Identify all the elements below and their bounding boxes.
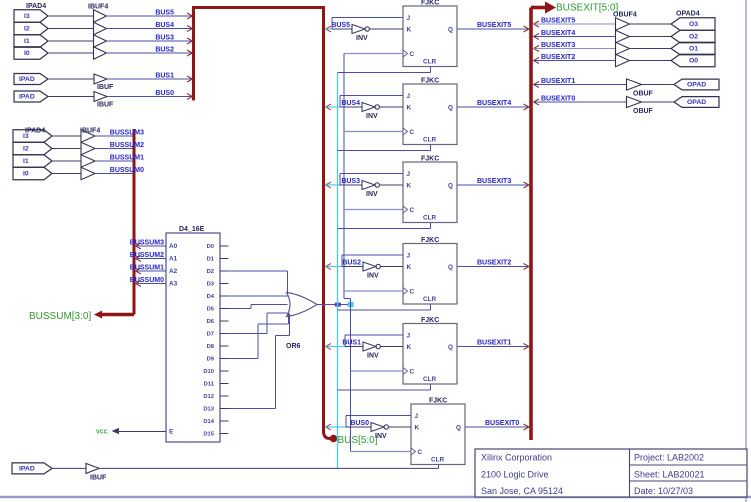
svg-text:BUSEXIT3: BUSEXIT3 — [477, 178, 511, 185]
wire BUS4 to J pin — [340, 96, 403, 108]
flip-flop U3 FJKC — [403, 0, 457, 67]
svg-text:BUSEXIT0: BUSEXIT0 — [541, 96, 575, 103]
wire BUS2 to INV input — [342, 260, 363, 267]
wire net BUSSUM2 from IBUF4 to bus — [95, 142, 144, 149]
wire BUSEXIT4 bus to OBUF4 — [534, 30, 616, 37]
svg-text:IBUF: IBUF — [97, 84, 114, 91]
input pad IPAD (clock) — [12, 463, 52, 474]
svg-text:VCC: VCC — [96, 430, 108, 436]
buffer OBUF (BUSEXIT0) — [627, 96, 654, 115]
wire decoder D4 to OR6 — [228, 295, 288, 297]
svg-text:IPAD4: IPAD4 — [25, 128, 45, 135]
flip-flop U6 FJKC — [403, 237, 457, 304]
svg-text:K: K — [407, 27, 412, 34]
bus tap BUS4 — [326, 104, 331, 110]
svg-text:INV: INV — [375, 433, 387, 440]
svg-text:OR6: OR6 — [286, 343, 301, 350]
wire CLR pin FF3 — [338, 223, 431, 229]
svg-text:INV: INV — [367, 273, 379, 280]
svg-text:FJKC: FJKC — [421, 237, 439, 244]
svg-text:BUS0: BUS0 — [155, 90, 174, 97]
svg-text:CLR: CLR — [431, 457, 445, 464]
or-gate OR6 — [286, 293, 317, 351]
svg-text:Q: Q — [448, 183, 453, 190]
wire clock to C pin FF2 — [344, 131, 403, 133]
bus tap BUS0 — [187, 94, 193, 100]
bus tap BUS0 — [326, 424, 331, 430]
wire BUSSUM3 bus to decoder A0 — [130, 240, 166, 247]
wire BUS4 to INV input — [340, 100, 362, 107]
wire net BUSEXIT0 to bus — [465, 420, 529, 427]
wire net BUSSUM0 from IBUF4 to bus — [95, 167, 144, 174]
input pad IPAD (BUS0) — [14, 91, 48, 102]
wire BUSEXIT1 bus to OBUF — [534, 78, 627, 85]
svg-text:BUSSUM2: BUSSUM2 — [110, 142, 144, 149]
svg-text:D14: D14 — [203, 419, 214, 425]
wire decoder D5 to OR6 — [228, 305, 288, 309]
flip-flop U8 FJKC — [411, 398, 465, 465]
wire BUS1 to INV input — [342, 340, 363, 347]
svg-text:Q: Q — [448, 105, 453, 112]
bus BUS[5:0] left vertical segment — [192, 8, 195, 101]
wire INV output to K pin — [380, 266, 403, 268]
svg-text:INV: INV — [356, 35, 368, 42]
svg-text:BUS4: BUS4 — [341, 100, 360, 107]
bus tap BUSEXIT2 into BUSEXIT bus — [524, 264, 530, 270]
wire IPAD4 pad 3 to IBUF4 — [48, 15, 94, 17]
svg-text:BUSEXIT[5:0]: BUSEXIT[5:0] — [556, 3, 618, 14]
svg-text:D7: D7 — [207, 332, 214, 338]
buffer IBUF4 — [88, 4, 108, 60]
wire IPAD to IBUF (BUS1) — [48, 78, 94, 80]
wire clock to C pin FF6 — [351, 451, 412, 453]
svg-text:D8: D8 — [207, 344, 215, 350]
svg-text:CLR: CLR — [423, 59, 437, 66]
svg-text:FJKC: FJKC — [421, 156, 439, 163]
svg-text:CLR: CLR — [423, 137, 437, 144]
svg-text:D0: D0 — [207, 244, 214, 250]
wire BUS3 to J pin — [340, 174, 403, 186]
svg-text:BUSEXIT2: BUSEXIT2 — [541, 54, 575, 61]
junction OR6 output at CLR line — [335, 303, 341, 307]
svg-text:I1: I1 — [24, 38, 30, 45]
bus tap BUS3 — [326, 182, 331, 188]
svg-text:K: K — [407, 264, 412, 271]
wire BUS3 tap segment — [326, 184, 340, 186]
inverter INV (BUS3) — [362, 181, 379, 199]
svg-text:C: C — [418, 449, 423, 456]
bus BUSEXIT[5:0] vertical segment — [529, 8, 533, 441]
net label BUSSUM[3:0] — [29, 311, 91, 322]
wire OBUF4 to OPAD4 pad 3 — [628, 23, 671, 25]
svg-text:A2: A2 — [169, 268, 178, 275]
title block — [475, 449, 747, 497]
wire BUS4 tap segment — [326, 106, 340, 108]
wire BUSEXIT5 bus to OBUF4 — [534, 18, 616, 25]
wire net BUS4 from IBUF4 to bus — [106, 22, 193, 29]
svg-text:OPAD: OPAD — [687, 99, 706, 106]
svg-text:Q: Q — [448, 27, 453, 34]
bus tap BUSSUM2 to decoder — [136, 256, 142, 262]
net label VCC — [96, 430, 108, 436]
inverter INV (BUS5) — [352, 25, 369, 43]
bus tap BUSEXIT5 to OBUF4 — [534, 21, 540, 27]
buffer IBUF (BUS1) — [94, 74, 114, 91]
wire net BUSSUM1 from IBUF4 to bus — [95, 155, 144, 162]
svg-text:J: J — [407, 15, 411, 22]
wire OBUF4 to OPAD4 pad 2 — [628, 36, 671, 38]
wire IPAD4 pad 1 to IBUF4 — [48, 40, 94, 42]
svg-text:BUSEXIT0: BUSEXIT0 — [485, 420, 519, 427]
svg-text:Q: Q — [456, 425, 461, 432]
svg-text:IPAD4: IPAD4 — [26, 3, 46, 10]
svg-text:I0: I0 — [24, 50, 30, 57]
inverter INV (BUS2) — [363, 262, 380, 280]
bus tap BUSSUM3 to decoder — [136, 243, 142, 249]
svg-text:I3: I3 — [24, 13, 30, 20]
svg-text:O0: O0 — [689, 58, 698, 65]
svg-text:D5: D5 — [207, 307, 215, 313]
wire BUS2 tap segment — [326, 266, 342, 268]
wire decoder D9 to OR6 — [228, 311, 289, 359]
bus tap BUSEXIT3 into BUSEXIT bus — [524, 182, 530, 188]
wire BUS0 to INV input — [346, 420, 371, 427]
wire decoder E input — [118, 431, 166, 433]
net label BUSEXIT[5:0] — [556, 3, 618, 14]
wire net BUSSUM3 from IBUF4 to bus — [95, 130, 144, 137]
wire BUSSUM1 bus to decoder A2 — [130, 265, 166, 272]
svg-text:BUSSUM0: BUSSUM0 — [110, 167, 144, 174]
buffer OBUF4 — [613, 12, 637, 67]
buffer OBUF (BUSEXIT1) — [627, 79, 654, 98]
wire BUS3 to INV input — [340, 178, 362, 185]
svg-text:BUS2: BUS2 — [155, 47, 174, 54]
svg-text:C: C — [410, 207, 415, 214]
svg-text:Sheet: LAB20021: Sheet: LAB20021 — [634, 470, 705, 480]
wire OBUF to OPAD (BUSEXIT1) — [642, 84, 675, 86]
svg-text:OBUF: OBUF — [633, 108, 654, 115]
svg-text:E: E — [169, 429, 174, 436]
bus tap BUSEXIT0 to OBUF — [534, 99, 540, 105]
wire net BUSEXIT4 to bus — [457, 100, 529, 107]
bus BUS[5:0] end hook and dot — [324, 431, 338, 442]
svg-text:Project: LAB2002: Project: LAB2002 — [634, 453, 704, 463]
wire net BUS3 from IBUF4 to bus — [106, 35, 193, 42]
svg-text:D10: D10 — [203, 369, 214, 375]
bus BUSEXIT[5:0] arrowhead — [545, 2, 556, 14]
wire CLR pin FF4 — [338, 304, 431, 310]
wire CLR pin FF1 — [338, 67, 431, 73]
svg-text:INV: INV — [366, 113, 378, 120]
bus BUSSUM[3:0] vertical segment — [133, 129, 136, 315]
wire decoder D2 to OR6 — [228, 271, 288, 296]
svg-text:Q: Q — [448, 264, 453, 271]
wire BUSSUM0 bus to decoder A3 — [130, 277, 166, 284]
wire BUS5 to J pin — [332, 18, 403, 30]
wire IPAD4 pad to IBUF4 (BUSSUM1) — [52, 160, 81, 162]
wire BUS1 tap segment — [326, 346, 345, 348]
svg-text:J: J — [407, 171, 411, 178]
svg-text:BUSEXIT1: BUSEXIT1 — [477, 340, 511, 347]
svg-text:BUSSUM0: BUSSUM0 — [130, 277, 164, 284]
svg-text:San Jose, CA 95124: San Jose, CA 95124 — [481, 486, 563, 496]
wire OBUF4 to OPAD4 pad 0 — [628, 60, 671, 62]
bus tap BUSSUM1 to decoder — [136, 268, 142, 274]
wire clock net jog — [344, 298, 351, 300]
svg-text:BUSSUM1: BUSSUM1 — [110, 155, 144, 162]
svg-text:D3: D3 — [207, 282, 215, 288]
svg-text:BUS[5:0]: BUS[5:0] — [338, 435, 378, 446]
svg-text:OBUF4: OBUF4 — [613, 12, 637, 19]
svg-text:IPAD: IPAD — [19, 94, 35, 101]
bus tap BUSEXIT4 into BUSEXIT bus — [524, 104, 530, 110]
inverter INV (BUS1) — [363, 342, 380, 360]
wire INV output to K pin — [379, 184, 403, 186]
wire clock net vertical upper — [343, 54, 345, 299]
svg-text:FJKC: FJKC — [429, 398, 447, 405]
svg-text:BUS3: BUS3 — [155, 35, 174, 42]
junction OR6 output at clock line — [348, 302, 354, 307]
svg-text:I2: I2 — [24, 26, 30, 33]
net label BUS[5:0] — [338, 435, 378, 446]
wire BUSEXIT3 bus to OBUF4 — [534, 42, 616, 49]
svg-text:IBUF4: IBUF4 — [88, 4, 108, 11]
svg-text:A0: A0 — [169, 243, 178, 250]
svg-text:A3: A3 — [169, 281, 178, 288]
wire OR6 output to clock line — [317, 304, 351, 306]
wire BUS2 to J pin — [342, 255, 403, 267]
svg-text:Xilinx Corporation: Xilinx Corporation — [481, 453, 552, 463]
svg-text:BUSEXIT2: BUSEXIT2 — [477, 260, 511, 267]
bus tap BUS4 — [187, 26, 193, 32]
svg-text:BUSSUM1: BUSSUM1 — [130, 265, 164, 272]
wire net BUS5 from IBUF4 to bus — [106, 10, 193, 17]
decoder output stubs D0-D15 — [220, 246, 229, 434]
wire clock to C pin FF5 — [351, 370, 404, 372]
wire net BUSEXIT5 to bus — [457, 22, 529, 29]
wire IPAD4 pad to IBUF4 (BUSSUM3) — [52, 135, 81, 137]
svg-text:BUSEXIT4: BUSEXIT4 — [477, 100, 511, 107]
wire BUS5 tap segment — [326, 28, 332, 30]
svg-text:D9: D9 — [207, 357, 215, 363]
input pad IPAD (BUS1) — [14, 74, 48, 85]
wire CLR pin FF6 — [438, 465, 440, 469]
svg-text:FJKC: FJKC — [421, 0, 439, 7]
svg-text:C: C — [410, 51, 415, 58]
wire CLR pin FF2 — [338, 145, 431, 151]
flip-flop U5 FJKC — [403, 156, 457, 223]
svg-text:D2: D2 — [207, 269, 214, 275]
svg-text:IBUF: IBUF — [97, 102, 114, 109]
buffer IBUF (clock) — [86, 463, 107, 481]
bus tap BUSEXIT3 to OBUF4 — [534, 46, 540, 52]
svg-text:C: C — [410, 289, 415, 296]
bus tap BUS3 — [187, 38, 193, 44]
svg-text:D11: D11 — [204, 382, 215, 388]
wire net BUSEXIT3 to bus — [457, 178, 529, 185]
svg-text:BUSEXIT3: BUSEXIT3 — [541, 42, 575, 49]
bus tap BUS1 — [326, 344, 331, 350]
wire IPAD to IBUF (clock) — [52, 467, 86, 469]
svg-text:IBUF4: IBUF4 — [80, 128, 100, 135]
svg-text:J: J — [415, 413, 419, 420]
svg-text:IPAD: IPAD — [19, 76, 35, 83]
input pad IPAD4 (BUSSUM group) — [13, 128, 52, 180]
bus tap BUS1 — [187, 76, 193, 82]
wire clock to C pin FF1 — [344, 53, 403, 55]
wire IPAD4 pad 0 to IBUF4 — [48, 52, 94, 54]
wire INV output to K pin — [380, 346, 403, 348]
svg-text:K: K — [407, 344, 412, 351]
wire net BUS0 from IBUF to bus — [107, 90, 193, 97]
svg-text:K: K — [407, 183, 412, 190]
wire CLR net vertical — [337, 73, 339, 469]
wire IPAD to IBUF (BUS0) — [48, 96, 94, 98]
svg-text:J: J — [407, 333, 411, 340]
wire BUSEXIT0 bus to OBUF — [534, 96, 627, 103]
svg-text:INV: INV — [367, 353, 379, 360]
svg-text:K: K — [407, 105, 412, 112]
svg-text:INV: INV — [366, 191, 378, 198]
wire BUS0 tap segment — [326, 426, 346, 428]
wire BUSEXIT2 bus to OBUF4 — [534, 54, 616, 61]
wire OBUF4 to OPAD4 pad 1 — [628, 48, 671, 50]
wire CLR pin FF5 — [338, 384, 431, 390]
wire BUS5 to INV input — [331, 22, 352, 29]
svg-text:J: J — [407, 93, 411, 100]
flip-flop U4 FJKC — [403, 78, 457, 145]
wire clock net vertical lower — [350, 299, 352, 452]
wire BUSSUM2 bus to decoder A1 — [130, 252, 166, 259]
wire net BUSEXIT2 to bus — [457, 260, 529, 267]
buffer IBUF4 (BUSSUM group) — [80, 128, 100, 180]
bus BUSEXIT[5:0] top horizontal segment — [531, 6, 546, 10]
bus tap BUSEXIT5 into BUSEXIT bus — [524, 26, 530, 32]
svg-text:BUSEXIT5: BUSEXIT5 — [477, 22, 511, 29]
svg-text:C: C — [410, 369, 415, 376]
svg-text:D6: D6 — [207, 319, 215, 325]
svg-text:I1: I1 — [23, 158, 29, 165]
svg-text:BUSSUM3: BUSSUM3 — [110, 130, 144, 137]
output pad OPAD (BUSEXIT0) — [674, 97, 719, 108]
output pad OPAD (BUSEXIT1) — [674, 79, 719, 90]
svg-text:BUS4: BUS4 — [155, 22, 174, 29]
svg-text:J: J — [407, 253, 411, 260]
wire clock net horizontal — [99, 467, 439, 469]
bus BUSSUM[3:0] end arrowhead — [94, 311, 102, 319]
bus tap BUSEXIT1 into BUSEXIT bus — [524, 344, 530, 350]
svg-text:FJKC: FJKC — [421, 78, 439, 85]
svg-text:OBUF: OBUF — [633, 91, 654, 98]
svg-text:BUS5: BUS5 — [331, 22, 350, 29]
wire INV output to K pin — [369, 28, 403, 30]
wire net BUS1 from IBUF to bus — [107, 73, 193, 80]
bus BUSSUM[3:0] bottom horizontal segment — [100, 313, 134, 316]
wire net BUS2 from IBUF4 to bus — [106, 47, 193, 54]
svg-text:BUSEXIT4: BUSEXIT4 — [541, 30, 575, 37]
svg-text:D4_16E: D4_16E — [179, 226, 205, 233]
svg-text:BUS2: BUS2 — [342, 260, 361, 267]
svg-text:BUS0: BUS0 — [350, 420, 369, 427]
wire BUS1 to J pin — [345, 335, 403, 347]
bus tap BUSEXIT4 to OBUF4 — [534, 34, 540, 40]
input pad IPAD4 (I3..I0) — [14, 3, 48, 59]
sheet border bottom — [0, 496, 751, 498]
svg-text:BUSSUM3: BUSSUM3 — [130, 240, 164, 247]
flip-flop U7 FJKC — [403, 317, 457, 384]
svg-text:D13: D13 — [203, 407, 214, 413]
svg-text:BUSSUM[3:0]: BUSSUM[3:0] — [29, 311, 91, 322]
inverter INV (BUS0) — [371, 423, 388, 441]
bus tap BUSSUM0 to decoder — [136, 281, 142, 287]
off-page arrow VCC — [112, 428, 120, 434]
buffer IBUF (BUS0) — [94, 92, 114, 109]
svg-text:CLR: CLR — [423, 215, 437, 222]
svg-text:IPAD: IPAD — [19, 466, 35, 473]
svg-text:D1: D1 — [207, 257, 215, 263]
svg-text:Date: 10/27/03: Date: 10/27/03 — [634, 486, 693, 496]
bus tap BUSEXIT1 to OBUF — [534, 82, 540, 88]
bus tap BUSEXIT2 to OBUF4 — [534, 58, 540, 64]
svg-text:O2: O2 — [689, 34, 698, 41]
svg-text:2100 Logic Drive: 2100 Logic Drive — [481, 470, 549, 480]
svg-text:C: C — [410, 129, 415, 136]
bus BUS[5:0] main vertical segment — [322, 6, 325, 433]
wire IPAD4 pad to IBUF4 (BUSSUM0) — [52, 173, 81, 175]
svg-text:Q: Q — [448, 344, 453, 351]
svg-text:I2: I2 — [23, 146, 29, 153]
wire net BUSEXIT1 to bus — [457, 340, 529, 347]
bus tap BUSEXIT0 into BUSEXIT bus — [524, 424, 530, 430]
svg-text:BUS1: BUS1 — [155, 73, 174, 80]
svg-text:K: K — [415, 425, 420, 432]
wire decoder D13 to OR6 — [228, 314, 290, 409]
wire INV output to K pin — [379, 106, 403, 108]
wire IPAD4 pad 2 to IBUF4 — [48, 28, 94, 30]
svg-text:OPAD: OPAD — [687, 82, 706, 89]
svg-text:OPAD4: OPAD4 — [676, 11, 700, 18]
sheet border right — [745, 0, 747, 502]
output pad OPAD4 (O3..O0) — [671, 11, 715, 67]
wire BUS0 to J pin — [346, 416, 411, 428]
svg-text:CLR: CLR — [423, 296, 437, 303]
svg-text:A1: A1 — [169, 256, 178, 263]
bus tap BUS5 — [326, 26, 331, 32]
svg-text:O1: O1 — [689, 46, 698, 53]
svg-text:CLR: CLR — [423, 376, 437, 383]
bus BUS[5:0] top horizontal segment — [192, 6, 324, 9]
bus tap BUS5 — [187, 13, 193, 19]
svg-text:FJKC: FJKC — [421, 317, 439, 324]
svg-text:BUS3: BUS3 — [341, 178, 360, 185]
svg-text:D12: D12 — [203, 394, 214, 400]
svg-text:D15: D15 — [203, 432, 214, 438]
wire INV output to K pin — [388, 426, 411, 428]
wire decoder D7 to OR6 — [228, 313, 288, 334]
svg-text:O3: O3 — [689, 21, 698, 28]
svg-text:D4: D4 — [207, 294, 215, 300]
wire clock to C pin FF3 — [344, 209, 403, 211]
wire clock to C pin FF4 — [344, 290, 403, 292]
svg-text:BUS5: BUS5 — [155, 10, 174, 17]
bus tap BUS2 — [187, 50, 193, 56]
svg-text:IBUF: IBUF — [90, 474, 107, 481]
svg-text:BUSSUM2: BUSSUM2 — [130, 252, 164, 259]
svg-text:BUSEXIT1: BUSEXIT1 — [541, 78, 575, 85]
decoder U2 D4_16E — [166, 226, 220, 442]
bus tap BUS2 — [326, 264, 331, 270]
wire IPAD4 pad to IBUF4 (BUSSUM2) — [52, 148, 81, 150]
